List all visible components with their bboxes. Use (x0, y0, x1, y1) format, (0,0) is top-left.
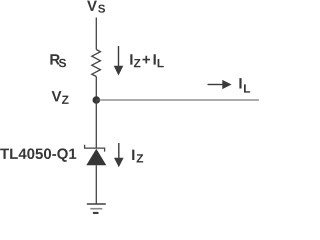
zener diode anode triangle (86, 149, 106, 166)
wire from diode anode to ground (95, 165, 97, 203)
label IL (239, 78, 250, 92)
resistor RS reference label (50, 54, 66, 67)
current arrow IZ (downward) (114, 143, 124, 167)
node VS label (87, 1, 105, 13)
wire from node VZ to right edge (96, 99, 259, 101)
current arrow IL (rightward) (208, 80, 232, 89)
zener diode cathode bar with bent ends (TL4050-Q1) (85, 145, 105, 152)
label IZ (132, 150, 143, 163)
wire from resistor to node VZ (95, 77, 97, 101)
wire from node VZ down to diode cathode (95, 100, 97, 148)
current arrow IZ+IL (downward) (114, 46, 124, 76)
resistor RS (zigzag body) (92, 50, 101, 77)
node VZ label (52, 91, 69, 104)
ground symbol (87, 204, 106, 213)
part label TL4050-Q1 (0, 148, 76, 161)
label IZ + IL (130, 54, 163, 67)
node VZ junction dot (93, 96, 101, 104)
wire from VS to resistor RS (95, 18, 97, 50)
